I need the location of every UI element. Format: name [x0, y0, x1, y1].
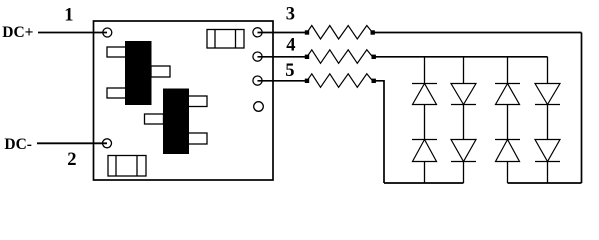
- diode D5 cathode bar: [495, 83, 520, 85]
- diode D7 triangle: [535, 84, 560, 105]
- wire pad 5 to R5: [258, 80, 306, 82]
- resistor R5 right junction dot: [372, 79, 376, 83]
- pin 5 pad circle: [253, 76, 262, 85]
- diode D7 cathode bar: [535, 104, 560, 106]
- resistor R3 left junction dot: [305, 30, 309, 34]
- diode D8 cathode bar: [535, 161, 560, 163]
- wire R4 to diode top rail: [373, 56, 548, 58]
- wire bottom right rail: [508, 182, 582, 184]
- wire pad 4 to R4: [258, 56, 306, 58]
- svg-text:DC+: DC+: [2, 24, 33, 41]
- svg-text:DC-: DC-: [4, 136, 32, 153]
- chip resistor R2 outline: [108, 156, 146, 177]
- resistor R5 zigzag: [307, 74, 373, 88]
- wire column 1 segments: [424, 57, 426, 183]
- chip resistor R2 end caps: [116, 156, 137, 177]
- wire DC+ to pad 1: [38, 32, 107, 34]
- resistor R3 zigzag: [307, 26, 373, 40]
- transistor Q1 bottom-left pad: [107, 88, 126, 98]
- diode D4 cathode bar: [451, 161, 476, 163]
- wire R5 elbow: [373, 81, 385, 183]
- resistor R3 right junction dot: [371, 30, 375, 34]
- diode D2 triangle: [413, 140, 437, 162]
- wire DC- to pad 2: [37, 142, 107, 144]
- svg-text:4: 4: [286, 35, 295, 55]
- wire column 3 segments: [507, 57, 509, 183]
- diode D6 triangle: [496, 140, 520, 162]
- transistor Q2 left pad: [145, 114, 164, 124]
- pin 4 pad circle: [253, 52, 262, 61]
- chip resistor R1 outline: [207, 30, 244, 49]
- resistor R5 left junction dot: [305, 79, 309, 83]
- wire column 2 segments: [463, 57, 465, 183]
- diode D8 triangle: [535, 140, 560, 162]
- wire pad 3 to R3: [258, 32, 306, 34]
- svg-text:1: 1: [64, 6, 73, 26]
- diode D5 triangle: [496, 84, 520, 105]
- transistor Q2 bottom-right pad: [188, 133, 207, 144]
- chip resistor R1 end caps: [215, 30, 236, 49]
- wire right vertical: [581, 33, 583, 184]
- svg-text:3: 3: [286, 5, 295, 25]
- module board outline: [94, 21, 274, 180]
- transistor Q1 left pad: [107, 47, 126, 57]
- pin 2 pad circle: [103, 139, 112, 148]
- svg-text:5: 5: [285, 61, 294, 81]
- unused pad circle: [254, 102, 264, 112]
- pin 3 pad circle: [253, 28, 262, 37]
- wire R3 to right rail: [373, 32, 582, 34]
- resistor R4 left junction dot: [305, 55, 309, 59]
- wire column 4 segments: [547, 57, 549, 183]
- svg-text:2: 2: [67, 150, 76, 170]
- transistor Q2 body: [163, 89, 189, 155]
- transistor Q1 body: [125, 41, 152, 105]
- diode D1 cathode bar: [412, 83, 437, 85]
- diode D4 triangle: [451, 140, 476, 162]
- diode D3 triangle: [451, 84, 476, 105]
- transistor Q1 right pad: [151, 66, 170, 77]
- pin 1 pad circle: [103, 28, 112, 37]
- diode D6 cathode bar: [495, 139, 520, 141]
- diode D1 triangle: [413, 84, 437, 105]
- diode D3 cathode bar: [451, 104, 476, 106]
- transistor Q2 top-right pad: [188, 96, 207, 107]
- wire bottom left rail: [384, 182, 464, 184]
- diode D2 cathode bar: [412, 139, 437, 141]
- resistor R4 zigzag: [307, 50, 373, 64]
- resistor R4 right junction dot: [372, 55, 376, 59]
